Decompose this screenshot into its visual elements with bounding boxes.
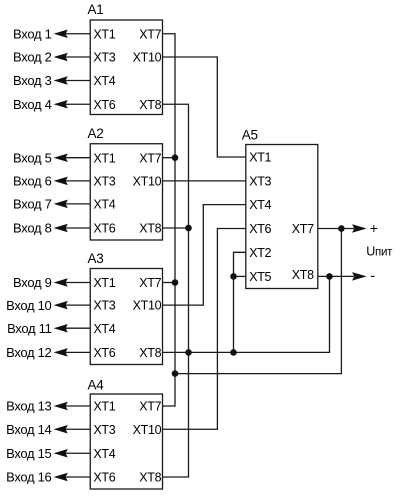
wire: input 14 line to A4: [64, 428, 90, 430]
svg-text:Вход 2: Вход 2: [13, 50, 52, 65]
svg-text:XT3: XT3: [93, 299, 115, 313]
svg-text:XT6: XT6: [93, 98, 115, 112]
svg-text:XT1: XT1: [93, 151, 115, 165]
svg-text:XT4: XT4: [249, 198, 271, 212]
svg-text:XT7: XT7: [292, 222, 314, 236]
svg-text:XT4: XT4: [93, 322, 115, 336]
wire: A1.XT10 to A5.XT1: [163, 57, 246, 157]
svg-text:-: -: [370, 268, 375, 285]
svg-text:XT8: XT8: [292, 268, 314, 282]
svg-text:Вход 4: Вход 4: [13, 97, 52, 112]
wire: A2.XT7 stub to XT7 bus: [163, 157, 176, 159]
svg-text:XT10: XT10: [133, 423, 162, 437]
wire: plus net horizontal from XT7 bus to output, up to XT7 line: [175, 229, 341, 374]
svg-text:XT1: XT1: [93, 276, 115, 290]
wire: XT8 bus A1.XT8 down to A4.XT8 (net -): [163, 104, 189, 477]
svg-text:Вход 12: Вход 12: [6, 345, 51, 360]
wire: A5.XT8 output line to - arrow: [318, 275, 354, 277]
svg-text:А1: А1: [88, 2, 104, 17]
svg-text:XT8: XT8: [139, 346, 161, 360]
svg-text:XT6: XT6: [93, 346, 115, 360]
svg-text:XT3: XT3: [93, 423, 115, 437]
junction: A2.XT8 on XT8 bus: [185, 225, 192, 232]
svg-text:Вход 6: Вход 6: [13, 174, 52, 189]
wire: A2.XT8 stub to XT8 bus: [163, 227, 189, 229]
junction: plus line on XT7 bus: [172, 370, 179, 377]
arrowhead: input 15 (points left): [55, 450, 67, 457]
svg-text:XT7: XT7: [139, 276, 161, 290]
junction: A2.XT7 on XT7 bus: [172, 154, 179, 161]
arrowhead: input 7 (points left): [55, 200, 67, 207]
svg-text:XT6: XT6: [93, 222, 115, 236]
wire: input 11 line to A3: [64, 327, 90, 329]
module A2: [90, 144, 162, 240]
arrowhead: input 2 (points left): [55, 53, 67, 60]
arrowhead: input 6 (points left): [55, 177, 67, 184]
module A1: [90, 20, 162, 115]
svg-text:XT3: XT3: [93, 51, 115, 65]
svg-text:XT3: XT3: [93, 175, 115, 189]
wire: A3.XT7 stub to XT7 bus: [163, 282, 176, 284]
junction: A5.XT5 on XT2 vertical: [230, 273, 237, 280]
svg-text:Вход 15: Вход 15: [6, 446, 51, 461]
svg-text:Вход 9: Вход 9: [13, 275, 52, 290]
svg-text:Uпит: Uпит: [366, 245, 393, 259]
svg-text:Вход 7: Вход 7: [13, 197, 52, 212]
svg-text:XT4: XT4: [93, 447, 115, 461]
arrowhead: input 11 (points left): [55, 325, 67, 332]
svg-text:А5: А5: [242, 128, 258, 143]
arrowhead: input 16 (points left): [55, 473, 67, 480]
arrowhead: input 13 (points left): [55, 402, 67, 409]
junction: minus line on XT8 bus: [185, 349, 192, 356]
wire: A5.XT2 stub left and down to minus line: [234, 252, 246, 352]
svg-text:Вход 8: Вход 8: [13, 221, 52, 236]
svg-text:XT1: XT1: [249, 151, 271, 165]
svg-text:XT3: XT3: [249, 175, 271, 189]
svg-text:Вход 5: Вход 5: [13, 150, 52, 165]
arrowhead: + output (points right): [353, 225, 365, 232]
svg-text:XT1: XT1: [93, 27, 115, 41]
svg-text:XT7: XT7: [139, 151, 161, 165]
wire: A5.XT5 stub to XT2 vertical: [234, 275, 246, 277]
junction: A3.XT7 on XT7 bus: [172, 279, 179, 286]
svg-text:+: +: [370, 220, 378, 236]
svg-text:Вход 11: Вход 11: [7, 321, 51, 336]
arrowhead: input 10 (points left): [55, 302, 67, 309]
wire: input 4 line to A1: [64, 103, 90, 105]
wire: A5.XT7 output line to + arrow: [318, 228, 354, 230]
wire: input 2 line to A1: [64, 56, 90, 58]
svg-text:Вход 16: Вход 16: [6, 470, 51, 485]
svg-text:XT2: XT2: [249, 246, 271, 260]
wire: XT7 bus A1.XT7 down to A4.XT7 (net +): [163, 34, 176, 406]
svg-text:XT5: XT5: [249, 270, 271, 284]
svg-text:Вход 14: Вход 14: [6, 422, 51, 437]
svg-text:А4: А4: [88, 378, 105, 393]
svg-text:XT10: XT10: [133, 51, 162, 65]
wire: input 10 line to A3: [64, 304, 90, 306]
svg-text:А3: А3: [88, 251, 104, 266]
arrowhead: input 3 (points left): [55, 77, 67, 84]
svg-text:XT8: XT8: [139, 222, 161, 236]
svg-text:XT1: XT1: [93, 400, 115, 414]
svg-text:XT7: XT7: [139, 27, 161, 41]
module A4: [90, 394, 162, 489]
svg-text:А2: А2: [88, 126, 104, 141]
wire: input 13 line to A4: [64, 405, 90, 407]
arrowhead: input 12 (points left): [55, 349, 67, 356]
wire: input 5 line to A2: [64, 157, 90, 159]
svg-text:XT10: XT10: [133, 175, 162, 189]
arrowhead: input 4 (points left): [55, 101, 67, 108]
wire: minus net horizontal from A3.XT8 to output, up to XT8 line: [163, 276, 330, 352]
svg-text:XT4: XT4: [93, 198, 115, 212]
wire: input 1 line to A1: [64, 33, 90, 35]
arrowhead: input 5 (points left): [55, 154, 67, 161]
wire: input 9 line to A3: [64, 282, 90, 284]
svg-text:XT4: XT4: [93, 74, 115, 88]
wire: input 8 line to A2: [64, 227, 90, 229]
svg-text:XT6: XT6: [249, 222, 271, 236]
wire: input 15 line to A4: [64, 452, 90, 454]
junction: minus branch on XT8 output: [326, 273, 333, 280]
wire: A4.XT10 to A5.XT6: [163, 229, 246, 430]
svg-text:Вход 1: Вход 1: [13, 26, 52, 41]
arrowhead: - output (points right): [353, 273, 365, 280]
wire: input 7 line to A2: [64, 203, 90, 205]
module A5: [246, 145, 318, 289]
wire: input 6 line to A2: [64, 180, 90, 182]
junction: plus branch on XT7 output: [338, 225, 345, 232]
arrowhead: input 9 (points left): [55, 279, 67, 286]
svg-text:Вход 3: Вход 3: [13, 73, 52, 88]
arrowhead: input 1 (points left): [55, 30, 67, 37]
arrowhead: input 14 (points left): [55, 426, 67, 433]
junction: XT2/XT5 vertical on minus line: [230, 349, 237, 356]
wire: A3.XT10 to A5.XT4: [163, 205, 246, 306]
svg-text:XT6: XT6: [93, 471, 115, 485]
wire: input 12 line to A3: [64, 351, 90, 353]
svg-text:Вход 10: Вход 10: [6, 298, 51, 313]
svg-text:XT8: XT8: [139, 471, 161, 485]
wire: A2.XT10 to A5.XT3: [163, 180, 246, 182]
arrowhead: input 8 (points left): [55, 224, 67, 231]
svg-text:XT10: XT10: [133, 299, 162, 313]
svg-text:XT7: XT7: [139, 400, 161, 414]
wire: input 3 line to A1: [64, 80, 90, 82]
module A3: [90, 269, 162, 365]
svg-text:XT8: XT8: [139, 98, 161, 112]
wire: input 16 line to A4: [64, 476, 90, 478]
svg-text:Вход 13: Вход 13: [6, 399, 51, 414]
